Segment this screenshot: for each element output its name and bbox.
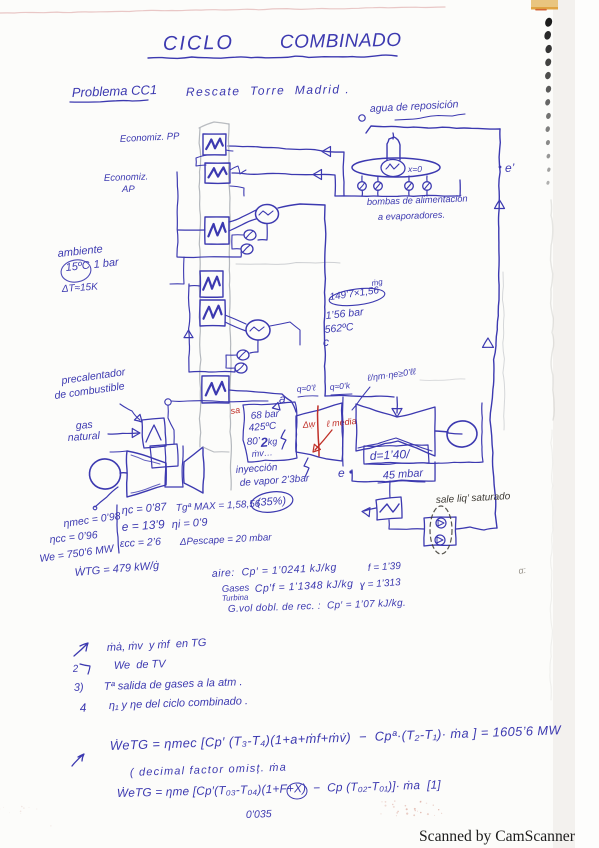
formula marker bbox=[72, 754, 84, 766]
tank internal float bbox=[381, 159, 406, 177]
feedwater tank (deaerator) bbox=[352, 158, 440, 177]
gas turbine bbox=[184, 447, 204, 493]
condensate pump bbox=[424, 517, 456, 546]
steam drum 2 bbox=[245, 319, 271, 341]
red delta-W line bbox=[318, 406, 320, 456]
bottom speckles bbox=[438, 809, 439, 810]
circ pump 2b bbox=[235, 363, 247, 373]
compressor bbox=[126, 451, 166, 497]
svg-text:AP: AP bbox=[121, 184, 135, 195]
duct flare to turbine bbox=[203, 447, 229, 452]
svg-text:x=0: x=0 bbox=[407, 164, 422, 174]
d=140 box bbox=[364, 445, 429, 465]
combustor bbox=[150, 444, 178, 468]
svg-text:80’: 80’ bbox=[246, 436, 261, 448]
svg-text:We de TV: We de TV bbox=[114, 658, 168, 672]
drum1 riser/downcomer cross bbox=[229, 210, 256, 222]
drum1 downcomer bbox=[258, 224, 267, 240]
vent line combustor bbox=[168, 405, 174, 444]
condenser boundary 45 mbar bbox=[352, 462, 435, 482]
svg-text:q≈0’ℓ: q≈0’ℓ bbox=[296, 382, 316, 394]
page right edge shadow bbox=[553, 0, 575, 848]
drum1 circ loop left bbox=[177, 172, 241, 258]
svg-text:0’035: 0’035 bbox=[246, 808, 272, 821]
outer loop line bbox=[170, 257, 184, 284]
svg-text:c: c bbox=[323, 335, 329, 349]
svg-text:f = 1’39: f = 1’39 bbox=[367, 561, 401, 574]
fuel preheater bbox=[142, 418, 166, 448]
up arrow on loop bbox=[184, 330, 193, 338]
steam turbine generator bbox=[435, 431, 448, 432]
svg-text:Problema CC1: Problema CC1 bbox=[72, 82, 158, 100]
flow arrow up 1 bbox=[495, 200, 505, 209]
svg-text:d=1’40/: d=1’40/ bbox=[369, 447, 411, 463]
LP steam turbine double-flow bbox=[356, 404, 435, 456]
feed pump 4 bbox=[426, 176, 428, 181]
LP inlet arrow bbox=[396, 397, 398, 413]
pen diagonal bbox=[95, 487, 118, 507]
svg-text:Turbina: Turbina bbox=[222, 593, 250, 603]
GT generator bbox=[88, 458, 122, 491]
circ pump 2a bbox=[237, 350, 249, 360]
gas line bbox=[108, 433, 138, 434]
exhaust duct left wall bbox=[199, 128, 201, 447]
svg-text:q≈0’k: q≈0’k bbox=[329, 380, 351, 392]
steam drum 1 bbox=[255, 204, 278, 223]
circ pump 1a bbox=[244, 229, 257, 240]
svg-text:CІCLO: CІCLO bbox=[163, 32, 234, 55]
feed pump 3 bbox=[408, 176, 410, 181]
svg-text:Scanned by CamScanner: Scanned by CamScanner bbox=[419, 828, 576, 845]
condensate line to pump bbox=[389, 520, 424, 529]
faint top margin line bbox=[0, 7, 445, 13]
circ pump 1b bbox=[241, 244, 253, 254]
faint pencil vertical right bbox=[502, 272, 504, 430]
condenser exchanger bbox=[389, 481, 391, 498]
svg-text:ṁv…: ṁv… bbox=[251, 447, 273, 459]
spiral binding holes bbox=[544, 17, 553, 28]
steam line drum1 to LP turbine bbox=[278, 204, 326, 396]
svg-text:Rescate Torre Madrid .: Rescate Torre Madrid . bbox=[186, 82, 351, 99]
svg-text:e: e bbox=[338, 466, 345, 480]
svg-text:ηi = 0’9: ηi = 0’9 bbox=[171, 517, 208, 531]
feed pump manifold bbox=[335, 180, 460, 196]
zigzag arrow 1 bbox=[281, 430, 286, 449]
combustor vent line bbox=[165, 399, 172, 406]
drum2 steam line right bbox=[270, 322, 300, 345]
feed pump 2 bbox=[377, 176, 379, 181]
evaporator AP (HX4) bbox=[200, 271, 223, 297]
exhaust duct right wall bbox=[228, 124, 231, 490]
feed line to economizer PP bbox=[228, 146, 344, 196]
steam line to LP inlet bbox=[325, 395, 394, 397]
drum2 risers bbox=[225, 315, 246, 324]
superheater/reheater (HX6) bbox=[202, 376, 229, 403]
connector HX2 right squiggle bbox=[230, 166, 246, 174]
svg-text:Δẉ: Δẉ bbox=[301, 419, 316, 430]
svg-text:natural: natural bbox=[67, 430, 101, 444]
question list bbox=[74, 643, 88, 656]
svg-text:e’: e’ bbox=[505, 161, 515, 175]
drum2 circ loop left bbox=[189, 284, 236, 372]
binding shadow streak bbox=[551, 200, 555, 420]
feedwater tank dome bbox=[387, 137, 400, 160]
arrow to preheater bbox=[120, 404, 140, 420]
generator enclosure wires bbox=[342, 397, 345, 466]
drum2 downcomer bbox=[250, 340, 258, 353]
superheater AP (HX5) bbox=[200, 300, 226, 326]
svg-text:εcc = 2’6: εcc = 2’6 bbox=[120, 536, 162, 550]
red arrow bbox=[315, 430, 332, 450]
flow arrow up 2 bbox=[483, 338, 494, 347]
evaporator PP (HX3) bbox=[205, 217, 229, 244]
feed pump 1 bbox=[361, 176, 363, 181]
HP steam data box bbox=[243, 402, 297, 462]
svg-text:COMBІNADO: COMBІNADO bbox=[280, 30, 402, 53]
svg-text:Economiz.: Economiz. bbox=[104, 171, 149, 184]
steam line HX6 to HP turbine bbox=[229, 390, 296, 412]
pump outlet wire bbox=[456, 527, 497, 530]
faint pencil line mid bbox=[236, 262, 340, 264]
svg-text:3): 3) bbox=[74, 681, 85, 694]
condenser outflow arrow bbox=[364, 508, 376, 511]
svg-text:kg: kg bbox=[267, 436, 277, 447]
air inlet sketch bbox=[110, 451, 127, 452]
HP steam turbine bbox=[296, 403, 343, 461]
economizer PP (HX1) bbox=[203, 134, 226, 155]
connector HX1-HX2 bbox=[196, 155, 207, 166]
feed line to economizer AP bbox=[232, 173, 335, 196]
orange sticky tab bbox=[531, 0, 558, 10]
make-up water wire top bbox=[366, 126, 500, 133]
svg-text:(35%): (35%) bbox=[256, 495, 286, 509]
svg-text:4: 4 bbox=[79, 701, 87, 715]
duct-side loop wire bbox=[230, 186, 244, 196]
condensate return wire (right loop) bbox=[490, 129, 500, 528]
economizer AP (HX2) bbox=[205, 163, 230, 183]
zigzag arrow 2 bbox=[304, 458, 309, 477]
svg-text:sa: sa bbox=[230, 405, 241, 416]
